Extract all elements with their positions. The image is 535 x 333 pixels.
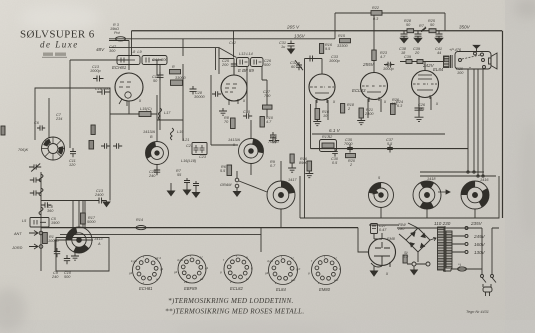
node riser x132 <box>131 31 133 56</box>
svg-text:4,g3: 4,g3 <box>177 258 183 262</box>
wire x183b drop <box>182 64 184 141</box>
svg-text:E BF 89: E BF 89 <box>238 68 254 73</box>
wire unit C bottom <box>250 163 252 175</box>
capacitor C15c <box>101 143 110 149</box>
coil L15 box <box>139 112 151 117</box>
power switch contacts <box>481 275 497 288</box>
resistor R17c boxed <box>320 140 337 152</box>
svg-text:1000p: 1000p <box>383 67 394 71</box>
svg-text:136V: 136V <box>294 34 306 39</box>
resistor R6 5.5 <box>227 165 232 176</box>
wire sec verticals to speaker <box>468 69 483 176</box>
transformer taps <box>451 227 468 254</box>
wire antenna chain <box>40 172 42 271</box>
coil can 1418 shaded unit F <box>412 180 442 210</box>
wire main vertical bus <box>304 59 306 219</box>
coil can 1415 shaded unit E <box>369 183 394 208</box>
svg-text:L13 L14: L13 L14 <box>239 52 253 56</box>
svg-text:500: 500 <box>264 63 271 67</box>
filter block L8 <box>117 56 140 65</box>
wire tuner top link <box>70 59 129 61</box>
svg-text:R15: R15 <box>338 34 346 38</box>
svg-text:EL84: EL84 <box>433 67 444 72</box>
wire plate riser x376 <box>373 13 375 73</box>
svg-text:Tegn Nr 4431: Tegn Nr 4431 <box>466 310 489 314</box>
svg-text:R: R <box>172 65 175 69</box>
svg-text:g1: g1 <box>265 271 269 275</box>
svg-text:L17: L17 <box>164 111 171 115</box>
resistor R20 <box>346 154 356 158</box>
capacitor C4 <box>30 177 41 182</box>
svg-text:t.t: t.t <box>334 256 337 260</box>
svg-text:1417: 1417 <box>288 178 297 182</box>
capacitor C39 <box>406 60 412 64</box>
svg-text:4.7: 4.7 <box>380 55 386 59</box>
ground EZ80 cathode <box>370 262 390 276</box>
wire switch drop a <box>481 228 483 274</box>
svg-text:2400: 2400 <box>364 112 374 116</box>
resistor R1 10000 <box>43 233 48 244</box>
wire EZ80 drop <box>358 228 368 252</box>
wire 48V bus <box>109 48 237 74</box>
resistor R19b 2M <box>171 80 183 85</box>
svg-text:de Luxe: de Luxe <box>40 40 79 50</box>
capacitor C16 500 <box>97 89 110 95</box>
svg-text:130V: 130V <box>474 250 486 255</box>
wire det link A <box>41 228 66 252</box>
resistor R25 <box>429 29 436 33</box>
wire heater bus 6.1V <box>312 133 445 135</box>
heater riser EZ80 <box>374 233 382 239</box>
svg-text:g,0: g,0 <box>296 267 301 271</box>
capacitor C11 <box>70 148 76 157</box>
svg-text:2400: 2400 <box>94 193 104 197</box>
svg-text:1413/A: 1413/A <box>228 138 241 142</box>
svg-text:A: A <box>97 242 101 246</box>
svg-text:70000: 70000 <box>268 140 279 144</box>
svg-text:30000: 30000 <box>194 95 205 99</box>
svg-text:ECL82: ECL82 <box>230 286 243 291</box>
svg-text:L16(L18): L16(L18) <box>181 159 197 163</box>
wire tuner box <box>35 88 110 201</box>
svg-text:a.0: a.0 <box>291 278 296 282</box>
svg-text:ECH81: ECH81 <box>112 65 127 70</box>
capacitor C24 70000 <box>270 132 276 140</box>
wire riser T3 top <box>305 59 323 75</box>
resistor R18b <box>341 104 345 114</box>
svg-text:100: 100 <box>457 71 464 75</box>
svg-text:5.5: 5.5 <box>387 142 393 146</box>
ground below R16c <box>305 171 313 178</box>
capacitor C9 <box>54 248 60 257</box>
terminal dots <box>467 171 469 173</box>
IF can 1413/A II shaded unit C <box>239 139 264 164</box>
wire gram riser <box>236 171 238 178</box>
coil L2 L3 L4 bumps <box>39 174 43 215</box>
wire det out <box>66 239 93 241</box>
svg-text:255V: 255V <box>362 62 375 67</box>
wire x211 drop <box>210 75 212 145</box>
IF can 1413/A shaded unit B <box>145 141 169 165</box>
svg-text:8900: 8900 <box>299 161 308 165</box>
resistor R28 <box>407 29 414 33</box>
svg-text:t.t: t.t <box>291 256 294 260</box>
svg-text:L15(C): L15(C) <box>140 107 152 111</box>
wire speaker terminal row B <box>420 175 496 177</box>
rectifier bridge diamond <box>406 228 436 252</box>
svg-text:280: 280 <box>397 227 405 231</box>
svg-text:C16: C16 <box>95 87 103 91</box>
capacitor C26 <box>231 62 237 68</box>
svg-text:**)TERMOSIKRING MED ROSES META: **)TERMOSIKRING MED ROSES METALL. <box>165 308 304 316</box>
wire IF riser C <box>250 120 252 139</box>
tuning arrow unit E <box>370 189 378 194</box>
svg-text:0.5: 0.5 <box>332 161 338 165</box>
capacitor C17 <box>212 91 221 97</box>
tube V3 ECL83 triode envelope <box>309 74 335 103</box>
svg-text:C15: C15 <box>243 110 251 114</box>
filter block L9 <box>142 56 167 65</box>
svg-text:g1: g1 <box>205 266 209 270</box>
wire second bottom bus <box>60 235 261 252</box>
capacitor C27 EZ80 <box>371 224 378 234</box>
svg-text:242V: 242V <box>422 63 435 68</box>
svg-text:33300: 33300 <box>337 44 348 48</box>
wire output feed corner <box>444 13 446 31</box>
wire x247 drop <box>246 67 248 114</box>
svg-text:235V: 235V <box>470 221 483 226</box>
svg-text:4.7: 4.7 <box>266 120 272 124</box>
svg-text:300: 300 <box>109 49 116 53</box>
surge resistor 0.2 <box>403 255 407 263</box>
capacitor C6 <box>37 125 45 130</box>
tube V6 EZ80 rectifier envelope <box>369 239 396 268</box>
socket diagram ECH81 <box>133 256 162 285</box>
tube V2 EF89 envelope <box>221 75 247 105</box>
wire mixer link <box>110 101 157 114</box>
svg-text:5.5: 5.5 <box>220 169 226 173</box>
resistor R16c 8900 <box>307 161 312 171</box>
gram jack <box>233 178 240 196</box>
capacitor C13b 2400 with ground <box>95 198 110 207</box>
svg-text:120: 120 <box>69 163 76 167</box>
ground row under IF B <box>167 183 174 196</box>
svg-text:*)TERMOSIKRING MED LODDETINN.: *)TERMOSIKRING MED LODDETINN. <box>168 297 294 305</box>
resistor R3 pot fuse oval <box>116 37 126 41</box>
capacitor C20 240 <box>154 167 160 175</box>
bridge input leads <box>399 223 418 262</box>
svg-text:110 230: 110 230 <box>434 221 451 226</box>
resistor R18a <box>320 44 324 54</box>
svg-text:t.t: t.t <box>200 255 203 259</box>
resistor R19 33000 <box>170 70 181 74</box>
wire unit D drop <box>280 209 282 228</box>
ground below R21 <box>357 118 365 125</box>
wire 265V main bus <box>132 30 503 32</box>
svg-text:0.3: 0.3 <box>373 17 379 21</box>
output transformer T2 primary <box>444 56 450 68</box>
svg-text:6.1 V: 6.1 V <box>329 128 341 133</box>
capacitor C3 <box>30 190 41 195</box>
ground near C10 <box>71 252 79 260</box>
svg-text:500: 500 <box>64 275 71 279</box>
wire T3 bottom drop <box>316 100 328 120</box>
capacitor C33 1000p <box>306 56 317 62</box>
resistor Rin edge <box>1 126 5 135</box>
resistor R4 <box>91 125 95 135</box>
svg-text:ANT: ANT <box>13 232 22 236</box>
svg-text:1900: 1900 <box>51 221 60 225</box>
capacitor C36 with ground <box>415 104 424 121</box>
wire unit B bottom <box>156 164 158 175</box>
wire gram to det <box>239 181 267 192</box>
svg-text:20: 20 <box>414 51 420 55</box>
ground below R16 <box>313 120 321 126</box>
svg-text:+P 476: +P 476 <box>449 48 462 52</box>
svg-text:ECH81: ECH81 <box>139 286 153 291</box>
svg-text:C42: C42 <box>229 41 237 45</box>
transformer bottom lead <box>443 269 451 271</box>
svg-text:Pot: Pot <box>114 31 121 35</box>
capacitor C31 1u with ground <box>288 41 295 54</box>
wire unit A top <box>73 201 85 229</box>
svg-text:R14: R14 <box>136 218 143 222</box>
svg-text:GRAM: GRAM <box>220 183 232 187</box>
IF can 1413 shaded unit A <box>66 227 92 253</box>
node riser x219 <box>218 48 220 56</box>
oscillator coil L6 spoked <box>42 137 66 161</box>
wire riser T1 top <box>109 41 129 71</box>
wire T5 bottom drop <box>419 97 431 116</box>
wire AF bus <box>311 148 469 150</box>
tuning arrow unit F <box>438 190 450 194</box>
svg-text:a.0: a.0 <box>334 278 339 282</box>
resistor R2 horizontal <box>263 105 273 109</box>
capacitor C21 C23 box <box>192 143 207 155</box>
resistor R15 <box>340 39 351 43</box>
svg-text:7000: 7000 <box>344 142 353 146</box>
resistor R26 <box>391 104 396 115</box>
resistor R23 <box>372 50 376 61</box>
wire R17 stub <box>82 201 84 228</box>
svg-text:EM8: EM8 <box>387 237 396 241</box>
svg-text:4,g3: 4,g3 <box>267 259 273 263</box>
mains plug <box>483 287 492 296</box>
svg-text:700: 700 <box>264 94 271 98</box>
capacitor C22 <box>269 138 279 144</box>
svg-text:C39: C39 <box>404 55 412 59</box>
svg-text:200: 200 <box>221 63 229 67</box>
coil can 1416 shaded unit G <box>461 181 489 209</box>
svg-text:5000: 5000 <box>87 220 96 224</box>
wire EL84 plate <box>400 57 444 71</box>
wire switch drop b <box>491 228 493 274</box>
resistor R30 lead <box>469 67 471 68</box>
svg-text:245V: 245V <box>473 234 486 239</box>
capacitor C18 50 <box>157 72 164 80</box>
ground below R13 <box>288 163 296 172</box>
tube V1 ECH81 envelope <box>115 73 143 106</box>
svg-text:9.5: 9.5 <box>325 47 331 51</box>
resistor R16 <box>315 109 320 120</box>
svg-text:160V: 160V <box>474 242 486 247</box>
wire 235V line <box>369 225 499 228</box>
svg-text:fe: fe <box>246 277 249 281</box>
svg-text:1416: 1416 <box>480 178 489 182</box>
svg-text:EL84: EL84 <box>276 287 286 292</box>
svg-text:48V: 48V <box>96 47 105 52</box>
wire x160 drop <box>159 64 161 130</box>
filter block L13 <box>237 58 250 67</box>
svg-text:1418: 1418 <box>427 177 436 181</box>
wire x310 riser <box>310 104 312 149</box>
resistor R21 <box>359 108 363 118</box>
wire unit A link <box>92 237 109 239</box>
capacitor C15b <box>243 113 252 119</box>
power transformer secondary winding <box>446 231 452 268</box>
wire IF B top feed <box>157 120 238 145</box>
svg-text:g2,4: g2,4 <box>155 256 161 260</box>
svg-text:6.3: 6.3 <box>397 104 403 108</box>
wire 136V bus <box>109 38 335 40</box>
capacitor C42b <box>417 60 423 64</box>
wire C13b stub <box>41 200 95 202</box>
socket diagram ELL80 <box>224 255 252 283</box>
decoupling caps C38 C39 C41 with grounds <box>400 31 408 43</box>
svg-text:0.7: 0.7 <box>270 164 276 168</box>
svg-text:10000: 10000 <box>48 239 59 243</box>
trimmer C32 <box>295 60 303 70</box>
node riser x183 <box>182 39 184 56</box>
wire detector box <box>56 238 109 272</box>
svg-text:706)K: 706)K <box>18 148 29 152</box>
lamp circles <box>407 262 430 275</box>
svg-text:EM80: EM80 <box>319 287 331 292</box>
wire speaker terminal row A <box>420 171 484 173</box>
svg-text:L21: L21 <box>183 138 189 142</box>
resistor R7b <box>421 28 426 32</box>
wire tuner inner drop <box>49 60 70 148</box>
socket diagram EBF89 <box>178 255 206 283</box>
capacitor C16c <box>113 143 122 149</box>
wire output box left riser <box>299 176 301 218</box>
capacitor C35 7000 <box>347 145 353 153</box>
svg-text:g1: g1 <box>129 271 133 275</box>
wire gram stub <box>260 228 262 235</box>
wire IF riser B <box>156 60 158 142</box>
resistor R10 <box>260 117 264 128</box>
node riser x335 <box>334 13 336 39</box>
svg-text:R22: R22 <box>372 6 380 10</box>
svg-text:500: 500 <box>103 87 110 91</box>
svg-text:0.47: 0.47 <box>379 228 387 232</box>
svg-text:g1: g1 <box>174 270 178 274</box>
svg-text:33000: 33000 <box>175 76 186 80</box>
svg-text:C21: C21 <box>186 144 193 148</box>
svg-text:JORD: JORD <box>11 246 23 250</box>
speaker terminal board <box>455 52 491 70</box>
coil L19 <box>171 128 174 140</box>
speaker cone <box>489 53 498 69</box>
mains fuse oval <box>458 267 467 271</box>
svg-text:k3: k3 <box>184 280 188 284</box>
capacitor C37 5.5 <box>387 145 393 153</box>
capacitor C10 <box>64 255 70 264</box>
svg-text:g1: g1 <box>160 267 164 271</box>
svg-text:EBF89: EBF89 <box>184 286 197 291</box>
filter block L14 <box>251 58 264 67</box>
socket diagram EL84 <box>269 256 298 285</box>
svg-text:L19: L19 <box>177 130 184 134</box>
svg-text:1: 1 <box>424 26 426 30</box>
resistor R8 70 <box>231 118 236 129</box>
maker logo smudge <box>43 53 53 56</box>
capacitor C13 1000p <box>93 76 104 82</box>
resistor R22 <box>371 11 382 16</box>
svg-text:C23: C23 <box>199 155 207 159</box>
resistor R13 <box>290 154 294 163</box>
wire T4 bottom drop <box>368 99 381 118</box>
svg-text:1000p: 1000p <box>329 59 340 63</box>
top cap arrow antenna mark <box>473 45 479 51</box>
socket pin labels S1 <box>129 254 341 285</box>
svg-text:k,g3: k,g3 <box>131 259 137 263</box>
svg-text:350V: 350V <box>459 25 471 30</box>
wire x267 drop <box>262 67 267 118</box>
wire output box bottom <box>300 176 499 218</box>
svg-text:44: 44 <box>437 51 441 55</box>
block L5 C5 <box>30 218 49 228</box>
tube V5 EL84 envelope <box>412 71 439 101</box>
svg-text:L8 L9: L8 L9 <box>131 50 142 54</box>
power transformer primary winding <box>438 227 445 270</box>
tube V4 pentode envelope <box>361 73 388 103</box>
svg-text:0.2: 0.2 <box>403 255 409 259</box>
wire unit EFG stubs <box>381 207 475 218</box>
svg-text:1413: 1413 <box>94 237 103 241</box>
coil can 1417 shaded unit D <box>267 181 295 209</box>
svg-text:1413/A: 1413/A <box>143 130 156 134</box>
svg-text:240: 240 <box>148 174 156 178</box>
wire top right feed <box>335 12 445 14</box>
capacitor C34 <box>384 62 394 68</box>
capacitor C30 <box>332 149 338 157</box>
resistor R5 <box>89 141 94 150</box>
wire right edge drop <box>502 31 504 218</box>
wire mains fuse run <box>451 268 482 270</box>
svg-text:234: 234 <box>55 117 62 121</box>
wire T2 riser <box>219 59 234 76</box>
svg-text:ECL83: ECL83 <box>352 88 366 93</box>
antenna arrow JORD <box>29 244 43 249</box>
ground under IF C <box>219 108 227 115</box>
socket diagram EM80 <box>312 256 341 285</box>
coil L17 <box>159 108 162 120</box>
svg-text:1000p: 1000p <box>90 69 101 73</box>
power transformer core lines <box>444 226 446 272</box>
capacitor C8 360 <box>41 202 51 208</box>
svg-text:585: 585 <box>418 107 425 111</box>
antenna arrow ANT <box>29 231 43 236</box>
svg-text:240: 240 <box>51 275 59 279</box>
svg-text:C44=500: C44=500 <box>152 58 168 62</box>
trimmer caps detector <box>29 163 41 171</box>
capacitor C28 <box>190 86 197 94</box>
resistor R17 5000 <box>81 213 86 224</box>
wire unit D top <box>280 161 282 181</box>
resistor R14 fuse oval <box>136 226 146 230</box>
svg-text:360: 360 <box>47 209 54 213</box>
